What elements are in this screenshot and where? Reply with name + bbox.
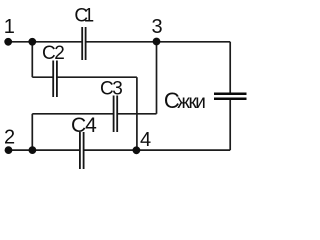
- capacitor C3: [114, 96, 118, 133]
- wire: top rail, C1 right plate to top-right corner: [86, 41, 231, 43]
- svg-text:2: 2: [4, 127, 15, 149]
- wire: C3 branch, C3 right plate to corner under node 3: [117, 113, 156, 115]
- svg-text:C4: C4: [71, 114, 97, 137]
- capacitor C2: [53, 61, 57, 98]
- capacitor C1: [82, 27, 85, 60]
- wire: right side lower, Cжки bottom plate down to corner: [229, 99, 231, 150]
- svg-text:C3: C3: [100, 79, 122, 100]
- svg-text:Сжки: Сжки: [164, 88, 205, 113]
- node 4 junction dot: [133, 146, 141, 154]
- svg-text:C2: C2: [42, 43, 64, 64]
- junction B dot on bottom rail: [29, 146, 37, 154]
- capacitor C4: [80, 132, 84, 169]
- wire: bottom rail, corner to C4 right plate: [84, 149, 231, 151]
- svg-text:4: 4: [140, 129, 151, 151]
- svg-text:C1: C1: [74, 5, 93, 26]
- wire: drop from C2 branch corner down to node 4: [136, 77, 138, 150]
- wire: top rail, node 1 to C1 left plate: [8, 41, 82, 43]
- wire: right side upper, corner down to Cжки top plate: [229, 42, 231, 93]
- svg-text:3: 3: [151, 16, 162, 38]
- node 1 terminal dot: [4, 38, 12, 46]
- svg-text:1: 1: [4, 16, 15, 38]
- capacitor Cжки (equivalent LCD capacitance, horizontal plates on right side): [214, 94, 247, 99]
- wire: riser from junction A on top rail down to C2 branch: [31, 42, 33, 77]
- junction A dot on top rail: [28, 38, 36, 46]
- node 2 terminal dot: [5, 146, 13, 154]
- wire: bottom rail, C4 left plate to node 2: [8, 149, 80, 151]
- wire: C3 branch, riser B to C3 left plate: [32, 113, 113, 115]
- node 3 junction dot: [153, 38, 161, 46]
- wire: drop from node 3 down to C3 branch corner: [156, 42, 158, 114]
- wire: riser from junction B on bottom rail up to C3 branch: [31, 114, 33, 150]
- wire: C2 branch, C2 right plate to corner: [57, 76, 137, 78]
- wire: C2 branch, riser A to C2 left plate: [32, 76, 53, 78]
